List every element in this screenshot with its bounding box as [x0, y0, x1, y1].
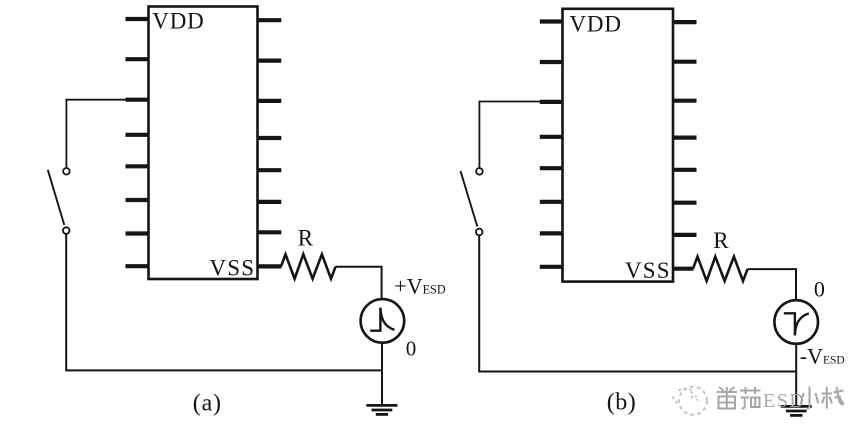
svg-text:+VESD: +VESD: [394, 274, 446, 299]
wire switch to ground rail (b): [479, 235, 796, 371]
glyph 番: [717, 387, 738, 409]
glyph 栈: [822, 387, 845, 409]
svg-text:VSS: VSS: [210, 256, 256, 281]
glyph 茄: [740, 387, 761, 409]
svg-text:R: R: [298, 226, 314, 251]
svg-text:R: R: [713, 228, 729, 253]
ground GND (a): [366, 405, 397, 414]
switch S1 top contact: [63, 168, 70, 175]
IC U2 right pins: [674, 22, 697, 269]
IC U1 right pins: [258, 20, 282, 266]
ESD source V1 circle (a): [361, 299, 405, 343]
svg-text:ESD: ESD: [763, 390, 805, 412]
wire pin3 to switch S2: [479, 102, 540, 169]
IC U1 left pins: [126, 19, 149, 266]
ESD source V2 circle (b): [774, 300, 818, 344]
svg-text:VDD: VDD: [570, 12, 622, 37]
resistor R (a): [281, 254, 336, 278]
pin VSS (a): [258, 264, 282, 268]
ESD pulse waveform inverted (b): [784, 313, 809, 335]
wire source to ground (b): [795, 344, 797, 406]
IC U2 body: [563, 9, 674, 282]
switch S2 blade: [461, 171, 478, 227]
wire source to ground (a): [381, 343, 383, 405]
watermark logo tomato: [673, 387, 708, 415]
svg-text:VDD: VDD: [152, 9, 204, 34]
switch S2 bottom contact: [476, 229, 483, 236]
wire pin3 to switch S1: [66, 100, 126, 168]
svg-text:-VESD: -VESD: [800, 344, 845, 369]
glyph 小: [801, 387, 819, 409]
watermark text 番茄ESD小栈: [717, 387, 761, 409]
svg-text:VSS: VSS: [625, 258, 671, 283]
ground GND (b): [781, 406, 812, 415]
switch S1 blade: [48, 170, 65, 225]
pin VSS (b): [674, 267, 694, 271]
switch S1 bottom contact: [63, 227, 70, 234]
resistor R (b): [693, 257, 748, 281]
svg-text:(a): (a): [193, 390, 222, 416]
svg-text:(b): (b): [607, 389, 636, 415]
svg-text:0: 0: [814, 276, 825, 301]
svg-text:0: 0: [406, 336, 417, 360]
switch S2 top contact: [476, 168, 483, 175]
IC U1 body: [149, 7, 258, 280]
ESD pulse waveform (a): [370, 308, 394, 331]
wire resistor to source (a): [336, 267, 382, 300]
wire switch to ground rail (a): [66, 234, 381, 371]
IC U2 left pins: [540, 22, 562, 267]
wire resistor to source (b): [748, 269, 796, 301]
